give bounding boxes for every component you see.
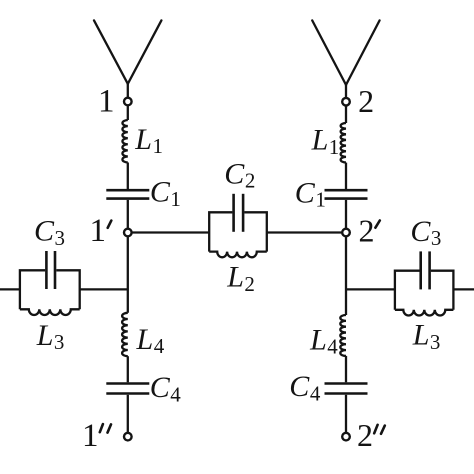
- svg-text:C2: C2: [224, 158, 255, 193]
- svg-text:C3: C3: [34, 215, 65, 250]
- inductor L2 (bottom edge scallops): [209, 252, 267, 258]
- inductor L3 scallops (right): [395, 310, 454, 316]
- svg-text:C1: C1: [150, 176, 181, 211]
- inductor L3 scallops (left): [20, 309, 80, 315]
- wire right branch junction to tank C3/L3 right: [346, 288, 395, 290]
- node 2': [342, 229, 350, 237]
- capacitor C2 plates: [234, 194, 244, 232]
- node 2'': [342, 433, 350, 441]
- tank box C3 L3 right (sides and top edge): [395, 271, 454, 310]
- svg-text:1: 1: [98, 84, 115, 120]
- wire node1 to L1: [127, 105, 129, 120]
- wire node 1p to tank C2/L2: [132, 231, 209, 233]
- wire tank C3/L3 to left branch junction: [80, 288, 128, 290]
- node 2: [342, 98, 350, 106]
- node 1': [124, 229, 132, 237]
- svg-text:L4: L4: [309, 324, 338, 359]
- capacitor C3 plates (left): [46, 251, 55, 289]
- antenna 1: [94, 20, 161, 97]
- node 1'': [124, 433, 132, 441]
- inductor L4 (left): [122, 313, 128, 356]
- wire C4 to node 2pp: [345, 395, 347, 433]
- wire C1 to node 1p: [127, 200, 129, 229]
- capacitor C3 plates (right): [421, 251, 430, 289]
- svg-text:C1: C1: [295, 176, 326, 211]
- wire tank C3/L3 right to page edge: [453, 288, 474, 290]
- tank box C3 L3 left (sides and top edge): [20, 270, 80, 309]
- capacitor C4 (left): [106, 384, 149, 394]
- wire C1 to node 2p: [345, 200, 347, 229]
- wire L1 to C1: [127, 163, 129, 190]
- svg-text:1: 1: [90, 213, 107, 249]
- capacitor C1 (right): [325, 190, 368, 198]
- wire node 2p down through junction to L4: [345, 237, 347, 316]
- svg-text:L3: L3: [36, 319, 65, 354]
- node 1: [124, 98, 132, 106]
- wire node2 to L1: [345, 106, 347, 123]
- capacitor C1 (left): [106, 190, 149, 198]
- inductor L4 (right): [340, 315, 346, 356]
- wire C4 to node 1pp: [127, 395, 129, 433]
- tank box C2 L2 (sides and top edge): [209, 212, 267, 251]
- svg-text:2: 2: [359, 213, 375, 249]
- svg-text:L3: L3: [412, 319, 441, 354]
- wire L1 to C1 (right): [345, 163, 347, 190]
- inductor L1 (left): [122, 120, 127, 162]
- svg-text:L1: L1: [134, 123, 163, 158]
- svg-text:L2: L2: [226, 261, 255, 296]
- wire L4 to C4 (right): [345, 356, 347, 382]
- wire node 1p down through junction to L4: [127, 237, 129, 313]
- svg-text:L4: L4: [136, 323, 165, 358]
- svg-text:2: 2: [358, 83, 374, 119]
- svg-text:C3: C3: [410, 215, 441, 250]
- svg-text:1: 1: [82, 418, 99, 454]
- wire L4 to C4: [127, 356, 129, 382]
- inductor L1 (right): [341, 123, 346, 163]
- svg-text:C4: C4: [289, 370, 321, 405]
- svg-text:2: 2: [357, 417, 373, 453]
- antenna 2: [312, 20, 379, 97]
- svg-text:L1: L1: [311, 124, 340, 159]
- wire tank C2/L2 to node 2p: [267, 231, 342, 233]
- wire left edge stub to tank C3/L3: [0, 288, 20, 290]
- svg-text:C4: C4: [150, 371, 182, 406]
- capacitor C4 (right): [325, 384, 368, 394]
